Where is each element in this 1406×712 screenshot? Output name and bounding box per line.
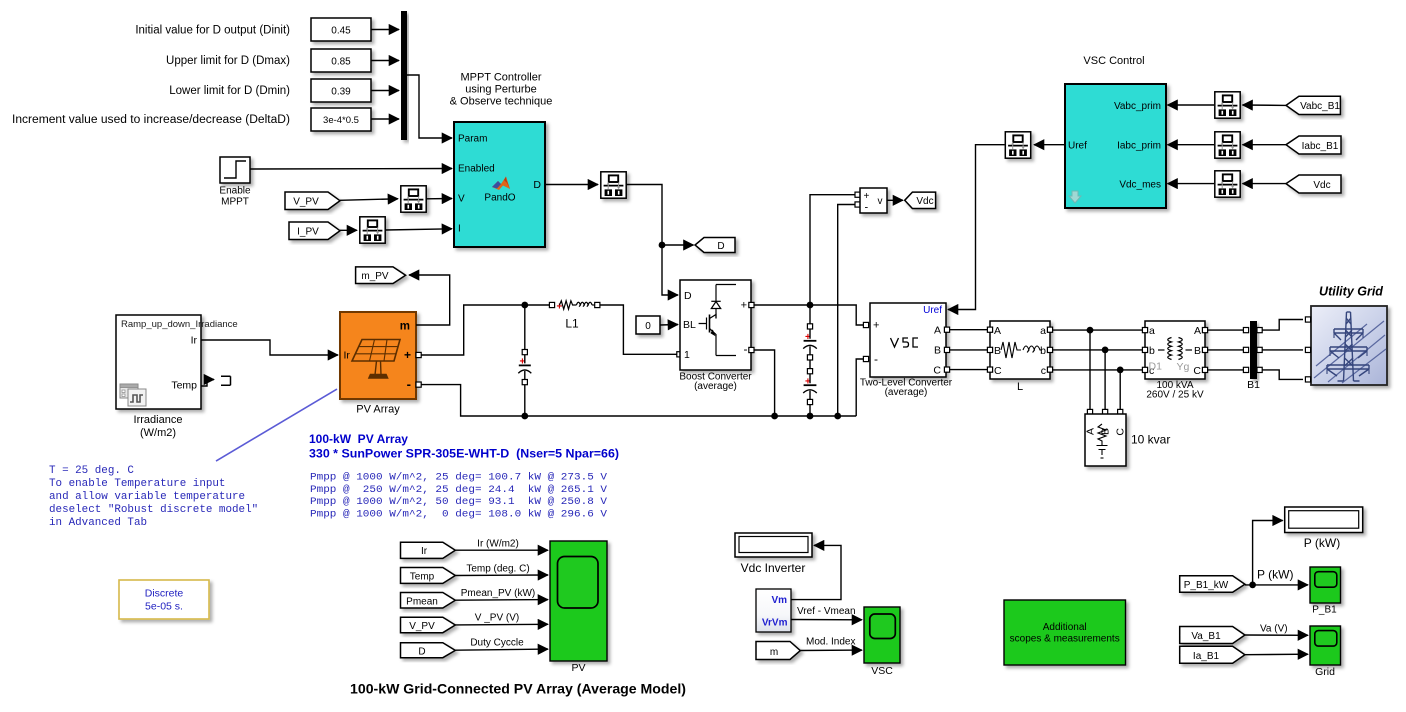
wire B1 to grid top xyxy=(1259,320,1303,331)
label: Enable MPPT xyxy=(219,186,251,208)
port square VSC C xyxy=(944,367,949,372)
svg-text:0: 0 xyxy=(645,321,651,332)
svg-text:Ir (W/m2): Ir (W/m2) xyxy=(477,539,519,550)
wire Iabc_B1 to RT5 xyxy=(1243,144,1287,146)
svg-text:D: D xyxy=(717,241,724,252)
icon: transformer windings xyxy=(1158,338,1192,360)
port square VSC plus xyxy=(863,322,868,327)
constant Dmin 0.39 xyxy=(311,79,371,102)
label: Two-Level Converter (average) xyxy=(860,378,953,398)
svg-text:Irradiance: Irradiance xyxy=(134,414,183,426)
rate transition RT7 xyxy=(1005,132,1030,158)
port square C1 top xyxy=(807,324,812,329)
svg-text:330 * SunPower SPR-305E-WHT-D: 330 * SunPower SPR-305E-WHT-D (Nser=5 Np… xyxy=(309,447,619,461)
svg-text:MPPT Controller: MPPT Controller xyxy=(460,72,541,84)
wire L a to transformer a xyxy=(1053,329,1143,331)
wire PV minus to DC bottom rail xyxy=(421,385,856,416)
svg-text:-: - xyxy=(744,342,748,356)
svg-text:Temp: Temp xyxy=(410,571,435,582)
wire B1 to grid middle xyxy=(1259,349,1303,351)
svg-text:Vdc: Vdc xyxy=(1313,180,1330,191)
wire VSC minus to bottom rail xyxy=(856,359,863,416)
label: 100 kVA 260V / 25 kV xyxy=(1146,380,1204,400)
wire C1 to C2 xyxy=(809,360,811,369)
svg-text:VSC Control: VSC Control xyxy=(1083,55,1144,67)
wire Dinit to mux xyxy=(371,29,399,31)
svg-text:b: b xyxy=(1040,345,1046,357)
svg-text:C: C xyxy=(1115,428,1127,436)
svg-text:5e-05 s.: 5e-05 s. xyxy=(145,601,183,613)
svg-text:PV: PV xyxy=(571,662,585,674)
svg-text:P (kW): P (kW) xyxy=(1257,568,1293,582)
port square VSC B xyxy=(944,347,949,352)
port square L1 left xyxy=(549,302,554,307)
icon: diode and IGBT inside Boost xyxy=(699,285,736,356)
port squares 10kvar top xyxy=(1087,409,1122,414)
svg-text:Iabc_prim: Iabc_prim xyxy=(1117,141,1161,152)
svg-text:Uref: Uref xyxy=(923,305,942,316)
from tag Vabc_B1 xyxy=(1286,96,1340,114)
icon: solar panel on PV Array xyxy=(352,340,400,379)
svg-text:Vref - Vmean: Vref - Vmean xyxy=(797,606,856,617)
capacitor C_PV bottom lead xyxy=(524,385,526,416)
port square VSC A xyxy=(944,327,949,332)
annotation: blue pointer line xyxy=(216,389,337,461)
wire Boost plus along DC top rail to VSC plus xyxy=(754,305,863,325)
rate transition RT3 xyxy=(601,172,626,198)
subsystem Utility Grid xyxy=(1311,306,1387,385)
svg-text:1: 1 xyxy=(684,349,690,361)
bus bar B1 xyxy=(1250,321,1257,379)
constant DeltaD 3e-4*0.5 xyxy=(311,108,371,131)
svg-text:P (kW): P (kW) xyxy=(1304,536,1340,550)
port square C_PV top xyxy=(522,350,527,355)
from tag D scope xyxy=(401,643,456,658)
step source Enable MPPT xyxy=(220,157,250,183)
constant 0 (BL) xyxy=(636,316,660,334)
scope Grid xyxy=(1310,626,1341,665)
svg-text:c: c xyxy=(1041,365,1046,377)
label: Irradiance (W/m2) xyxy=(134,414,183,439)
svg-text:0.39: 0.39 xyxy=(331,86,351,97)
svg-text:+: + xyxy=(404,348,411,362)
node: C_PV bottom junction xyxy=(521,413,528,420)
port square Boost minus xyxy=(749,347,754,352)
svg-text:Enabled: Enabled xyxy=(458,164,495,175)
node: P junction xyxy=(1249,582,1256,589)
wire I_PV to rate transition xyxy=(340,229,357,231)
rate transition RT1 xyxy=(401,186,426,212)
svg-text:m_PV: m_PV xyxy=(361,271,389,282)
wire Dmin to mux xyxy=(371,90,399,92)
wire MPPT D to rate transition xyxy=(545,184,598,186)
from tag I_PV xyxy=(289,222,340,240)
port square PV minus xyxy=(416,382,421,387)
constant Dinit 0.45 xyxy=(311,18,371,41)
subsystem Irradiance (W/m2) xyxy=(116,315,238,409)
wire transformer B to bus B1 xyxy=(1208,349,1248,351)
display Vdc Inverter xyxy=(735,533,812,557)
svg-text:Va_B1: Va_B1 xyxy=(1191,631,1221,642)
svg-text:+: + xyxy=(741,299,747,311)
subsystem VSC Control xyxy=(1065,84,1166,208)
wire DeltaD to mux xyxy=(371,118,399,120)
svg-text:D: D xyxy=(684,290,692,302)
wire tap c down to 10kvar C xyxy=(1119,370,1121,410)
svg-text:Ia_B1: Ia_B1 xyxy=(1193,651,1220,662)
svg-text:Pmpp @ 250 W/m^2, 25 deg= 24.: Pmpp @ 250 W/m^2, 25 deg= 24.4 kW @ 265.… xyxy=(310,484,608,496)
wire RT5 to Iabc_prim xyxy=(1168,144,1215,146)
svg-text:b: b xyxy=(1149,345,1155,357)
port square Boost plus xyxy=(749,302,754,307)
wire RT3 down to Boost D input xyxy=(627,185,679,296)
svg-text:Increment value used to increa: Increment value used to increase/decreas… xyxy=(12,114,290,126)
wire Enable MPPT to Enabled xyxy=(250,168,452,171)
svg-text:-: - xyxy=(874,352,878,366)
node: 10kvar tap phase a xyxy=(1087,327,1094,334)
svg-text:I: I xyxy=(458,224,461,235)
svg-text:+: + xyxy=(873,320,879,332)
wire mux to MPPT Param xyxy=(407,75,452,138)
svg-text:a: a xyxy=(1149,325,1155,337)
scope PV xyxy=(550,541,607,661)
svg-text:and allow variable temperature: and allow variable temperature xyxy=(49,491,245,503)
terminator on Temp xyxy=(221,376,231,385)
svg-text:D: D xyxy=(418,647,425,658)
transformer block 100 kVA xyxy=(1145,321,1205,379)
wire V_PV to rate transition xyxy=(340,199,398,201)
svg-text:To enable Temperature input: To enable Temperature input xyxy=(49,478,225,490)
wire RT4 to Vabc_prim xyxy=(1168,104,1215,106)
wire P_B1_kW junction up to display xyxy=(1245,521,1283,585)
svg-text:Pmpp @ 1000 W/m^2, 50 deg= 93.: Pmpp @ 1000 W/m^2, 50 deg= 93.1 kW @ 250… xyxy=(310,496,608,508)
svg-text:V _PV (V): V _PV (V) xyxy=(475,613,519,624)
wire junction to goto D xyxy=(662,244,694,246)
capacitor C_PV symbol xyxy=(518,355,531,380)
svg-text:using Perturbe: using Perturbe xyxy=(465,84,537,96)
constant Dmax 0.85 xyxy=(311,49,371,72)
svg-text:C: C xyxy=(1193,365,1201,377)
svg-text:Vdc: Vdc xyxy=(916,196,933,207)
svg-text:Ir: Ir xyxy=(344,350,351,362)
annotation: Pmpp table xyxy=(310,472,608,521)
rate transition RT6 xyxy=(1215,171,1240,197)
from tag V_PV scope xyxy=(401,617,456,633)
svg-text:D: D xyxy=(533,179,541,191)
icon: RL inside choke L xyxy=(1001,342,1042,358)
wire VSC C to L C xyxy=(949,369,988,371)
from tag Iabc_B1 xyxy=(1286,136,1341,154)
svg-text:Additional: Additional xyxy=(1043,622,1087,633)
load block 10 kvar xyxy=(1085,414,1127,466)
display P (kW) xyxy=(1285,507,1363,533)
selector block Vm VrVm xyxy=(756,589,791,632)
svg-text:Va (V): Va (V) xyxy=(1260,624,1288,635)
svg-text:in Advanced Tab: in Advanced Tab xyxy=(49,517,147,529)
annotation: 100-kW PV Array heading xyxy=(309,432,619,461)
port square Boost 1 xyxy=(677,352,682,357)
mux Mux1 xyxy=(401,11,407,140)
port square VM minus xyxy=(855,202,860,207)
port squares choke L right xyxy=(1047,327,1052,372)
wire transformer C to bus B1 xyxy=(1208,369,1248,371)
svg-text:Vdc Inverter: Vdc Inverter xyxy=(741,561,806,575)
rate transition RT4 xyxy=(1215,92,1240,118)
svg-text:V_PV: V_PV xyxy=(409,621,435,632)
label: Boost Converter (average) xyxy=(679,371,752,392)
wire Uref out to rate transition RT7 xyxy=(1034,144,1065,146)
wire RT2 to I xyxy=(386,229,453,230)
annotation: T = 25 deg. C note xyxy=(49,465,258,529)
icon: VSC stylized logo xyxy=(891,338,919,347)
svg-text:Utility Grid: Utility Grid xyxy=(1319,285,1383,299)
from tag V_PV xyxy=(285,192,340,210)
wire Dmax to mux xyxy=(371,60,399,62)
port squares bus B1 right xyxy=(1257,328,1262,373)
svg-text:+: + xyxy=(864,191,870,202)
port square VM plus xyxy=(855,192,860,197)
svg-text:Temp: Temp xyxy=(171,380,197,392)
svg-text:(average): (average) xyxy=(885,387,928,398)
svg-text:Pmean: Pmean xyxy=(406,596,438,607)
svg-text:-: - xyxy=(407,377,411,392)
svg-text:BL: BL xyxy=(683,319,696,331)
svg-text:B: B xyxy=(934,345,941,357)
svg-text:T = 25 deg. C: T = 25 deg. C xyxy=(49,465,134,477)
svg-text:Ir: Ir xyxy=(421,546,428,557)
pv-array block PV Array xyxy=(340,312,416,399)
svg-text:deselect "Robust discrete mode: deselect "Robust discrete model" xyxy=(49,504,258,516)
svg-text:-: - xyxy=(865,202,869,214)
svg-text:MPPT: MPPT xyxy=(221,197,249,208)
wire PV plus to DC top rail xyxy=(421,305,549,355)
wire 0 to BL xyxy=(660,324,678,327)
goto tag D xyxy=(695,238,735,253)
port square C_PV bottom xyxy=(522,380,527,385)
svg-text:Pmean_PV (kW): Pmean_PV (kW) xyxy=(461,588,535,599)
wire Pmean to PV scope xyxy=(455,599,548,602)
port square C1 bottom xyxy=(807,355,812,360)
svg-text:PandO: PandO xyxy=(484,193,515,204)
port squares Utility Grid xyxy=(1305,317,1310,382)
svg-text:Vabc_B1: Vabc_B1 xyxy=(1300,101,1340,112)
icon: transmission tower xyxy=(1314,312,1386,383)
capacitor C1 top lead xyxy=(809,305,811,324)
svg-text:PV Array: PV Array xyxy=(356,404,400,416)
wire L1 to Boost input 1 xyxy=(600,305,677,354)
converter block Boost Converter (average) xyxy=(680,280,751,370)
from tag Vdc (right) xyxy=(1286,175,1341,193)
subsystem MPPT Controller (PandO) xyxy=(454,122,545,247)
port square C2 bottom xyxy=(807,399,812,404)
svg-text:(average): (average) xyxy=(694,381,737,392)
svg-text:a: a xyxy=(1040,325,1046,337)
icon: signal builder window xyxy=(120,384,146,406)
svg-text:100-kW Grid-Connected PV Array: 100-kW Grid-Connected PV Array (Average … xyxy=(350,681,686,697)
svg-text:0.85: 0.85 xyxy=(331,56,351,67)
annotation: MPPT Controller title xyxy=(450,72,553,108)
wire RT6 to Vdc_mes xyxy=(1168,183,1215,185)
wire Ia_B1 to Grid scope xyxy=(1245,653,1308,656)
wire VSC B to L B xyxy=(949,349,988,351)
svg-text:V: V xyxy=(458,194,465,205)
svg-text:L: L xyxy=(1017,381,1023,393)
wire PV m to goto m_PV xyxy=(409,275,450,325)
wire P to P_B1 scope xyxy=(1253,584,1308,586)
icon: MATLAB logo on MPPT block xyxy=(492,177,510,191)
wire Temp to PV scope xyxy=(455,574,548,577)
rate transition RT2 xyxy=(360,217,385,243)
svg-text:Uref: Uref xyxy=(1068,141,1087,152)
from tag m xyxy=(756,642,800,660)
wire tap b down to 10kvar B xyxy=(1104,350,1106,410)
scope VSC xyxy=(864,607,900,663)
capacitor C1 symbol xyxy=(803,329,817,355)
scope P_B1 xyxy=(1310,567,1341,603)
svg-text:m: m xyxy=(400,321,410,333)
svg-text:(W/m2): (W/m2) xyxy=(140,427,176,439)
node: D branch junction xyxy=(659,242,666,249)
measurement block Vdc (V measurement) xyxy=(860,188,887,214)
svg-text:Initial value for D output (Di: Initial value for D output (Dinit) xyxy=(135,25,290,37)
svg-text:A: A xyxy=(994,325,1001,337)
from tag Va_B1 xyxy=(1180,627,1245,644)
wire B1 to grid bottom xyxy=(1259,370,1303,380)
svg-text:Vabc_prim: Vabc_prim xyxy=(1114,101,1161,112)
converter block Two-Level Converter (average) xyxy=(870,303,946,377)
wire Irradiance Ir to PV Array Ir xyxy=(201,340,338,355)
wire Vdc measurement plus xyxy=(810,195,858,305)
svg-text:Vm: Vm xyxy=(771,595,787,606)
svg-text:A: A xyxy=(934,325,941,337)
node: bottom rail junction at capacitor bank xyxy=(807,413,814,420)
svg-text:Discrete: Discrete xyxy=(145,588,184,600)
svg-text:m: m xyxy=(770,647,778,658)
svg-text:Iabc_B1: Iabc_B1 xyxy=(1302,141,1339,152)
svg-text:10 kvar: 10 kvar xyxy=(1131,433,1170,447)
wire Boost minus down to bottom rail xyxy=(754,350,775,416)
svg-text:L1: L1 xyxy=(565,317,579,331)
wire L c to transformer c xyxy=(1053,369,1143,371)
wire VrVm to VSC scope xyxy=(791,619,862,621)
svg-text:Pmpp @ 1000 W/m^2, 0 deg= 108: Pmpp @ 1000 W/m^2, 0 deg= 108.0 kW @ 296… xyxy=(310,508,608,520)
wire m to VSC scope xyxy=(800,649,862,651)
svg-text:100-kW PV Array: 100-kW PV Array xyxy=(309,432,408,446)
svg-text:Ir: Ir xyxy=(191,335,198,347)
capacitor C2 bottom lead xyxy=(809,405,811,416)
node: C_PV top junction xyxy=(521,302,528,309)
wire Vm to Vdc Inverter display xyxy=(791,545,841,599)
capacitor C2 symbol xyxy=(803,374,817,400)
svg-text:Yg: Yg xyxy=(1177,361,1190,373)
wire VSC A to L A xyxy=(949,329,988,331)
from tag Temp xyxy=(401,568,456,584)
svg-text:D1: D1 xyxy=(1149,361,1163,373)
svg-text:0.45: 0.45 xyxy=(331,25,351,36)
svg-text:B1: B1 xyxy=(1247,379,1260,391)
wire Vabc_B1 to RT4 xyxy=(1243,104,1287,106)
node: DC top rail junction at capacitor bank xyxy=(807,302,814,309)
icon: shunt RC branch inside 10 kvar xyxy=(1097,424,1108,458)
svg-text:Temp (deg. C): Temp (deg. C) xyxy=(466,564,529,575)
svg-text:P_B1: P_B1 xyxy=(1312,605,1337,616)
inductor L1 (series RL) xyxy=(557,301,595,313)
node: bottom rail junction at VM minus xyxy=(834,413,841,420)
from tag Ir xyxy=(401,542,456,558)
svg-text:Lower limit for D (Dmin): Lower limit for D (Dmin) xyxy=(169,85,290,97)
svg-text:3e-4*0.5: 3e-4*0.5 xyxy=(323,115,359,126)
port square PV plus xyxy=(416,352,421,357)
svg-text:I_PV: I_PV xyxy=(297,226,319,237)
svg-text:Ramp_up_down_Irradiance: Ramp_up_down_Irradiance xyxy=(121,319,238,330)
svg-text:scopes & measurements: scopes & measurements xyxy=(1010,634,1120,645)
choke block L xyxy=(990,321,1050,379)
svg-text:Vdc_mes: Vdc_mes xyxy=(1119,179,1161,190)
wire L b to transformer b xyxy=(1053,349,1143,351)
port squares bus B1 left xyxy=(1243,328,1248,373)
wire D to PV scope xyxy=(455,649,548,650)
port squares transformer right xyxy=(1202,328,1207,373)
from tag P_B1_kW xyxy=(1180,576,1245,593)
port square L1 right xyxy=(595,302,600,307)
svg-text:v: v xyxy=(878,196,883,207)
scopes block Additional scopes and measurements xyxy=(1004,600,1126,665)
svg-text:Enable: Enable xyxy=(219,186,251,197)
node: 10kvar tap phase b xyxy=(1102,347,1109,354)
svg-text:C: C xyxy=(994,365,1002,377)
svg-text:VSC: VSC xyxy=(871,665,893,677)
svg-text:Upper limit for D (Dmax): Upper limit for D (Dmax) xyxy=(166,55,290,67)
goto tag Vdc xyxy=(905,192,936,208)
svg-text:A: A xyxy=(1085,428,1097,435)
port square C2 top xyxy=(807,369,812,374)
svg-text:B: B xyxy=(994,345,1001,357)
svg-text:P_B1_kW: P_B1_kW xyxy=(1184,580,1229,591)
wire RT7 to Two-Level Converter Uref xyxy=(948,145,1005,310)
annotation block Discrete 5e-05 s. xyxy=(119,580,209,619)
wire Ir to PV scope xyxy=(455,549,548,551)
wire Va_B1 to Grid scope xyxy=(1245,634,1308,636)
svg-text:Pmpp @ 1000 W/m^2, 25 deg= 100: Pmpp @ 1000 W/m^2, 25 deg= 100.7 kW @ 27… xyxy=(310,472,608,484)
svg-text:V_PV: V_PV xyxy=(293,196,319,207)
from tag Pmean xyxy=(401,593,456,609)
wire Vdc measurement minus xyxy=(838,205,858,417)
svg-text:& Observe technique: & Observe technique xyxy=(450,96,553,108)
svg-text:Duty Cyccle: Duty Cyccle xyxy=(470,638,524,649)
wire RT1 to V xyxy=(427,198,453,200)
svg-text:260V / 25 kV: 260V / 25 kV xyxy=(1146,389,1204,400)
goto tag m_PV xyxy=(356,267,406,284)
svg-text:Param: Param xyxy=(458,134,487,145)
rate transition RT5 xyxy=(1215,132,1240,158)
svg-text:Grid: Grid xyxy=(1315,666,1335,678)
from tag Ia_B1 xyxy=(1180,646,1245,663)
icon: library link arrow on VSC Control xyxy=(1069,191,1081,203)
wire v to goto Vdc xyxy=(887,199,903,201)
wire Temp to terminator xyxy=(201,380,214,387)
wire Vdc tag to RT6 xyxy=(1243,183,1287,185)
svg-text:A: A xyxy=(1194,325,1201,337)
svg-text:B: B xyxy=(1194,345,1201,357)
wire transformer A to bus B1 xyxy=(1208,329,1248,331)
wire V_PV to PV scope xyxy=(455,623,548,626)
wire tap a down to 10kvar A xyxy=(1089,330,1091,410)
port squares choke L left xyxy=(987,327,992,372)
port squares transformer left xyxy=(1142,328,1147,373)
node: bottom rail junction at boost minus xyxy=(771,413,778,420)
svg-text:Mod. Index: Mod. Index xyxy=(806,637,855,648)
svg-text:C: C xyxy=(933,364,941,376)
